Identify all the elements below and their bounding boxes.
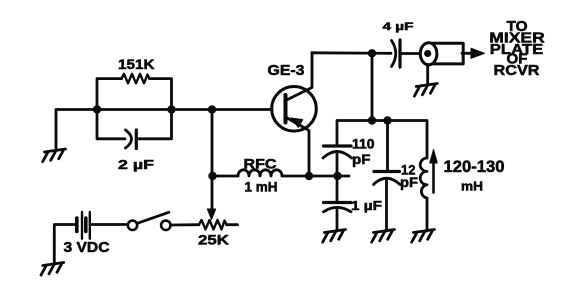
- label pF (12): [400, 174, 418, 190]
- capacitor C 4uF straight plate: [398, 40, 401, 67]
- node: junction dot at base/RFC tap: [208, 105, 216, 113]
- svg-text:3 VDC: 3 VDC: [64, 240, 111, 256]
- label 4 uF: [383, 21, 414, 33]
- capacitor C 4uF curved plate: [392, 41, 396, 67]
- transistor Q1 collector lead: [286, 53, 313, 101]
- coax jack body: [429, 43, 463, 64]
- capacitor C 2uF straight plate: [135, 130, 138, 149]
- label 25K: [198, 232, 229, 248]
- transistor Q1 base bar: [284, 95, 288, 123]
- label mH: [461, 179, 483, 194]
- capacitor C 110pF straight plate: [324, 144, 352, 147]
- wire: vertical from base line down to RFC line: [211, 110, 214, 177]
- wire: parallel-branch left riser (up): [97, 79, 122, 110]
- wire: 12pF to ground: [385, 179, 388, 231]
- label 2 uF: [118, 157, 154, 172]
- wire: emitter line to 110pF column: [309, 175, 349, 178]
- ground (1uF): [323, 230, 346, 243]
- capacitor C 1uF straight plate: [324, 201, 352, 204]
- node: emitter junction dot: [305, 172, 313, 180]
- label 1 uF: [351, 198, 382, 213]
- node: junction dot at 110pF column: [333, 172, 341, 180]
- capacitor C 12pF curved plate: [374, 178, 401, 184]
- wire: switch to potentiometer: [171, 223, 199, 226]
- wire: parallel-branch top right: [150, 79, 172, 110]
- wire: main base line: [97, 108, 272, 111]
- svg-text:25K: 25K: [198, 232, 229, 248]
- wire: battery left lead and ground drop: [54, 225, 75, 265]
- wire: RFC right lead to emitter junction: [282, 175, 309, 178]
- resistor R 151K zigzag: [122, 74, 150, 83]
- ground (coax): [414, 84, 437, 97]
- label 120-130: [444, 158, 505, 176]
- label 110: [352, 136, 375, 152]
- battery B1 plate tall 2: [89, 212, 91, 239]
- wire: vertical down to pot wiper arrow: [211, 176, 214, 210]
- wire: collector top line to 4uF: [312, 51, 391, 54]
- wire: RFC left lead: [213, 175, 239, 178]
- ground (12pF): [372, 230, 395, 243]
- wire: tank top line: [337, 121, 427, 159]
- capacitor C 1uF curved plate: [324, 207, 352, 211]
- wire: battery to switch: [90, 223, 128, 226]
- wire: 1uF to ground: [336, 209, 339, 232]
- node: dot tank line right: [383, 116, 391, 124]
- coax jack ellipse: [420, 43, 437, 65]
- output arrow: [462, 52, 472, 55]
- label 3 VDC: [64, 240, 111, 256]
- capacitor C 110pF curved plate: [323, 152, 352, 159]
- coax jack center pin dot: [424, 50, 431, 57]
- svg-text:2 µF: 2 µF: [118, 157, 154, 172]
- svg-text:120-130: 120-130: [444, 158, 505, 176]
- transistor Q1 GE-3 circle: [272, 87, 317, 132]
- battery B1 plate tall 1: [81, 212, 83, 239]
- node: dot tank line left: [368, 116, 376, 124]
- wire: coil to ground: [426, 198, 429, 231]
- label RFC: [244, 155, 277, 171]
- wire: coax shell to ground: [426, 65, 429, 86]
- capacitor C 2uF curved plate: [126, 130, 132, 148]
- wire: pot right stub: [227, 223, 238, 226]
- wiper arrowhead of potentiometer: [207, 209, 215, 220]
- svg-text:1 mH: 1 mH: [245, 180, 278, 195]
- svg-text:GE-3: GE-3: [268, 63, 305, 79]
- svg-text:mH: mH: [461, 179, 483, 194]
- label TO MIXER PLATE OF RCVR: [489, 18, 545, 79]
- label GE-3: [268, 63, 305, 79]
- label 1 mH: [245, 180, 278, 195]
- wire: 110pF to emitter line: [336, 153, 339, 177]
- ground (top left): [43, 149, 66, 162]
- wire: riser from 4uF junction down to tank top line: [371, 53, 374, 120]
- svg-text:RFC: RFC: [244, 155, 277, 171]
- svg-text:pF: pF: [352, 151, 371, 167]
- ground (battery): [41, 263, 64, 276]
- svg-text:RCVR: RCVR: [494, 62, 540, 79]
- switch S1 right contact: [161, 221, 170, 230]
- wire: parallel-branch bottom right: [136, 110, 171, 139]
- capacitor C 12pF straight plate: [374, 170, 400, 173]
- wire: 12pF column from tank line: [386, 121, 389, 172]
- wire: 4uF to coax jack: [400, 52, 421, 55]
- switch S1 lever: [137, 212, 169, 223]
- wire: left ground riser to main line: [56, 110, 97, 151]
- transistor Q1 emitter arrow (PNP): [291, 118, 303, 127]
- inductor RFC 1mH coil: [238, 170, 282, 176]
- wire: parallel-branch left riser (down) to capacitor: [97, 110, 125, 139]
- svg-text:4 µF: 4 µF: [383, 21, 414, 33]
- node: junction dot left of R/C pair: [93, 105, 101, 113]
- potentiometer R 25K zigzag: [199, 220, 227, 229]
- node: junction dot right of R/C pair: [167, 105, 175, 113]
- label 151K: [118, 56, 155, 72]
- node: junction dot RFC left: [208, 172, 216, 180]
- battery B1 plate short 1: [75, 218, 79, 231]
- transistor Q1 emitter lead: [286, 117, 310, 176]
- svg-text:151K: 151K: [118, 56, 155, 72]
- svg-text:110: 110: [352, 136, 375, 152]
- inductor L 120-130mH coil: [420, 158, 427, 198]
- battery B1 plate short 2: [84, 218, 88, 231]
- wire: emitter junction down to 1uF: [336, 176, 339, 202]
- inductor tuning arrow: [432, 163, 435, 193]
- label 12: [401, 161, 416, 177]
- svg-text:1 µF: 1 µF: [351, 198, 382, 213]
- label pF (110): [352, 151, 371, 167]
- svg-text:pF: pF: [400, 174, 418, 190]
- node: junction dot collector/4uF: [368, 49, 376, 57]
- switch S1 left contact: [128, 221, 137, 230]
- ground (coil): [412, 230, 435, 243]
